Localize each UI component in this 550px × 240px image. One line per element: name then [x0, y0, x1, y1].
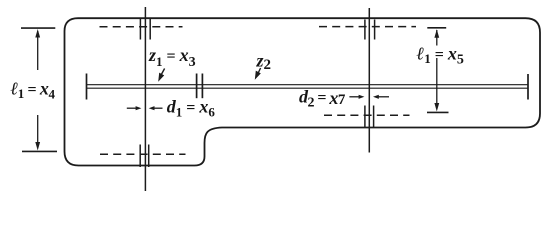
svg-text:ℓ1 = x4: ℓ1 = x4 [11, 78, 56, 101]
svg-text:d2 = x7: d2 = x7 [299, 87, 346, 111]
svg-text:z2: z2 [256, 50, 272, 73]
svg-text:ℓ1 = x5: ℓ1 = x5 [417, 44, 464, 68]
svg-text:z1 = x3: z1 = x3 [148, 45, 196, 70]
svg-text:d1 = x6: d1 = x6 [167, 97, 216, 120]
